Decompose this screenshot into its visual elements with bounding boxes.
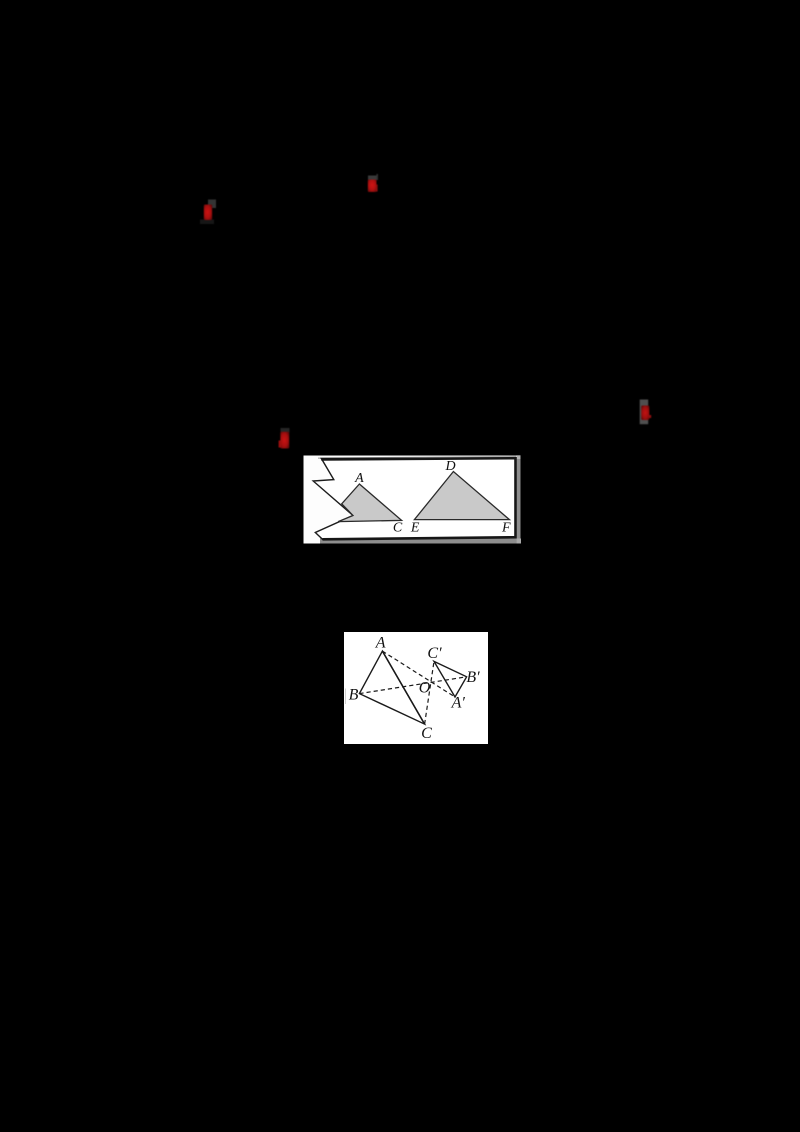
white image background [344, 632, 488, 744]
faint tick left edge [345, 688, 346, 704]
red mark 2 (answer glyph left) [196, 196, 220, 226]
dashed A-A' [382, 651, 455, 697]
svg-text:C: C [421, 725, 432, 742]
triangle ABC solid [359, 651, 424, 724]
svg-text:E: E [410, 521, 420, 536]
edge A-C solid [382, 651, 424, 724]
shadow right band [517, 459, 521, 539]
red mark 1 (answer glyph near top) [364, 172, 384, 196]
svg-text:O: O [419, 679, 431, 696]
triangle DEF (gray) [414, 472, 509, 520]
svg-text:A′: A′ [451, 694, 466, 711]
svg-text:A: A [354, 471, 364, 486]
white image background [304, 456, 521, 544]
torn triangle ABC (gray) [338, 484, 401, 522]
svg-text:C: C [393, 521, 403, 536]
svg-text:D: D [444, 459, 455, 474]
svg-text:B′: B′ [466, 669, 480, 686]
svg-text:C′: C′ [427, 645, 442, 662]
figure 2: triangles ABC and A'B'C' symmetric about centre O [344, 632, 488, 744]
paper with torn left edge [313, 458, 515, 539]
red mark 4 (answer glyph mid-left) [274, 424, 298, 454]
gray strip above top border [318, 457, 516, 459]
figure 1: torn rectangular paper with triangles ABC and DEF [303, 455, 521, 544]
shadow bottom band [320, 539, 521, 544]
svg-text:B: B [349, 686, 359, 703]
dashed C-C' [425, 661, 434, 724]
dashed B-B' [359, 676, 466, 693]
red mark 3 (answer glyph right, red 4 on gray) [634, 395, 658, 429]
svg-text:F: F [501, 521, 511, 536]
thick top border [321, 458, 515, 539]
shadow light corners [517, 456, 521, 459]
triangle A'B'C' solid [434, 661, 467, 697]
svg-text:A: A [375, 634, 386, 651]
